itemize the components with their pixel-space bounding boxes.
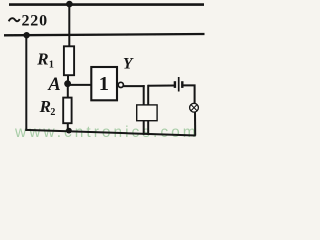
battery GB plate short left	[174, 81, 176, 88]
svg-text:R: R	[39, 97, 51, 116]
wire relay left lead down	[143, 85, 145, 135]
op-amp U1 NOT gate box	[91, 67, 117, 100]
wire battery to lamp corner	[183, 85, 194, 103]
svg-text:2: 2	[50, 107, 55, 118]
wire R1 to node A	[67, 75, 69, 85]
wire L1 top AC supply line	[9, 3, 204, 6]
wire relay right lead to battery	[148, 85, 174, 87]
resistor R2 body	[63, 98, 71, 124]
junction dot on second line	[23, 32, 29, 38]
node A junction dot	[64, 80, 71, 87]
wire lamp to bottom rail	[194, 112, 196, 136]
gate output inversion bubble	[118, 82, 123, 87]
wire gate output Y	[123, 85, 144, 87]
background paper	[0, 0, 211, 148]
svg-text:Y: Y	[123, 56, 134, 73]
wire left vertical from second line down	[25, 35, 27, 131]
wire relay right lead down	[147, 85, 149, 135]
battery GB plate long middle	[178, 77, 180, 92]
svg-text:1: 1	[99, 73, 109, 95]
battery GB plate short right	[181, 81, 183, 88]
lamp EL cross	[191, 105, 197, 111]
svg-text:1: 1	[49, 59, 54, 70]
svg-text:R: R	[36, 49, 48, 68]
wire L2 second AC supply line	[4, 34, 205, 35]
wire from top line down to R1	[68, 5, 70, 48]
junction dot R2 / bottom rail	[66, 128, 72, 134]
wire R2 down to bottom rail	[67, 123, 69, 131]
resistor R1 body	[64, 46, 74, 75]
wire bottom rail	[25, 130, 196, 136]
relay coil K box	[137, 105, 157, 121]
wire node A to gate input	[69, 84, 92, 86]
lamp EL circle	[190, 103, 199, 112]
svg-text:220: 220	[22, 13, 48, 30]
svg-text:A: A	[47, 75, 60, 95]
wire node A down to R2	[67, 84, 69, 98]
node junction dot on top line	[66, 1, 73, 8]
label ~220 AC source	[9, 13, 48, 30]
